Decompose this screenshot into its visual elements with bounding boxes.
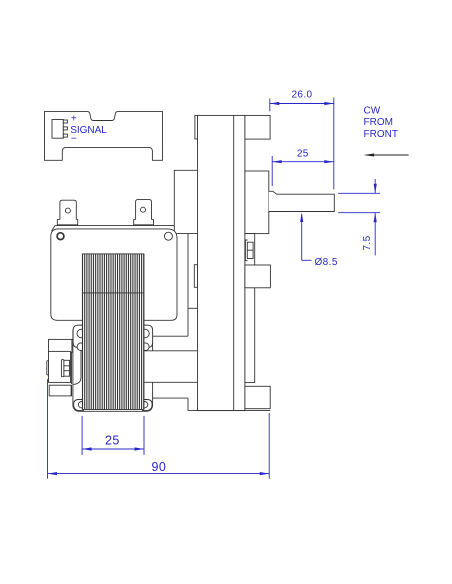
svg-text:25: 25	[105, 434, 120, 448]
coil band right	[144, 351, 197, 383]
dim 7.5 extension bottom	[338, 212, 380, 214]
gearbox mounting plate	[51, 229, 177, 320]
right mid block	[245, 265, 271, 288]
dim 25 bottom extensions	[81, 416, 83, 455]
hub bottom line	[153, 335, 188, 337]
right foot step	[152, 397, 188, 399]
plate screw left	[57, 233, 64, 240]
terminal tab left	[57, 200, 77, 225]
connector housing	[52, 120, 63, 139]
connector pins	[63, 120, 67, 123]
bolt bracket upper	[49, 339, 72, 352]
coil bobbin edge	[72, 340, 81, 385]
lower mount box	[49, 385, 71, 396]
bolt bracket lower	[49, 351, 71, 382]
gearbox top-right block	[245, 115, 270, 139]
gearbox rear strip	[195, 115, 198, 139]
gearbox foot block	[245, 386, 270, 408]
terminal tab right	[134, 200, 154, 225]
plate-gearbox shelf top	[177, 232, 198, 234]
clip top-left	[73, 325, 84, 347]
svg-text:+: +	[71, 114, 77, 125]
left mid block	[194, 265, 197, 288]
hub shelf	[188, 307, 198, 309]
dim 25 top extension left	[271, 156, 273, 186]
gearbox body	[198, 115, 245, 410]
upper boss block	[174, 170, 197, 232]
motor end shield	[73, 325, 153, 411]
svg-text:90: 90	[152, 460, 167, 474]
dim 90 extensions	[47, 379, 49, 479]
svg-text:Ø8.5: Ø8.5	[315, 257, 338, 268]
lamination divider	[83, 292, 144, 294]
flange edge line	[52, 226, 175, 231]
dim 25 top line	[272, 161, 334, 163]
svg-text:7.5: 7.5	[362, 235, 373, 250]
dim 26.0 extension right (long)	[333, 98, 335, 190]
gearbox bottom line	[188, 410, 270, 412]
hub rear vertical	[187, 233, 189, 336]
connector bracket outline	[45, 112, 163, 161]
shaft	[269, 191, 335, 211]
svg-text:−: −	[71, 134, 77, 145]
svg-text:FRONT: FRONT	[364, 129, 398, 140]
dim 26.0 line	[270, 103, 334, 105]
rotation arrow	[366, 154, 409, 156]
plate screw right	[164, 232, 172, 240]
dim 26.0 extension left	[269, 99, 271, 112]
clip top-right	[142, 325, 153, 347]
lamination stack	[83, 254, 144, 410]
dim 25 bottom line	[82, 448, 144, 450]
svg-text:FROM: FROM	[364, 117, 393, 128]
adjuster stack	[247, 242, 253, 258]
svg-text:26.0: 26.0	[291, 90, 312, 101]
dim 7.5 extension top	[338, 192, 380, 194]
leader dia 8.5	[301, 214, 303, 260]
clip bottom-right	[142, 400, 152, 411]
adjuster bracket line	[245, 240, 247, 261]
svg-text:CW: CW	[364, 106, 381, 117]
dim 7.5 arrows	[374, 179, 376, 193]
gearbox parting line	[233, 115, 235, 410]
clip bottom-left	[74, 400, 84, 411]
svg-text:25: 25	[297, 148, 309, 159]
dim 90 line	[48, 473, 270, 475]
bearing block	[245, 171, 269, 234]
bolt tip	[47, 361, 49, 375]
hex bolt washer	[61, 360, 64, 377]
right column	[245, 234, 255, 383]
hex bolt head	[64, 360, 70, 376]
